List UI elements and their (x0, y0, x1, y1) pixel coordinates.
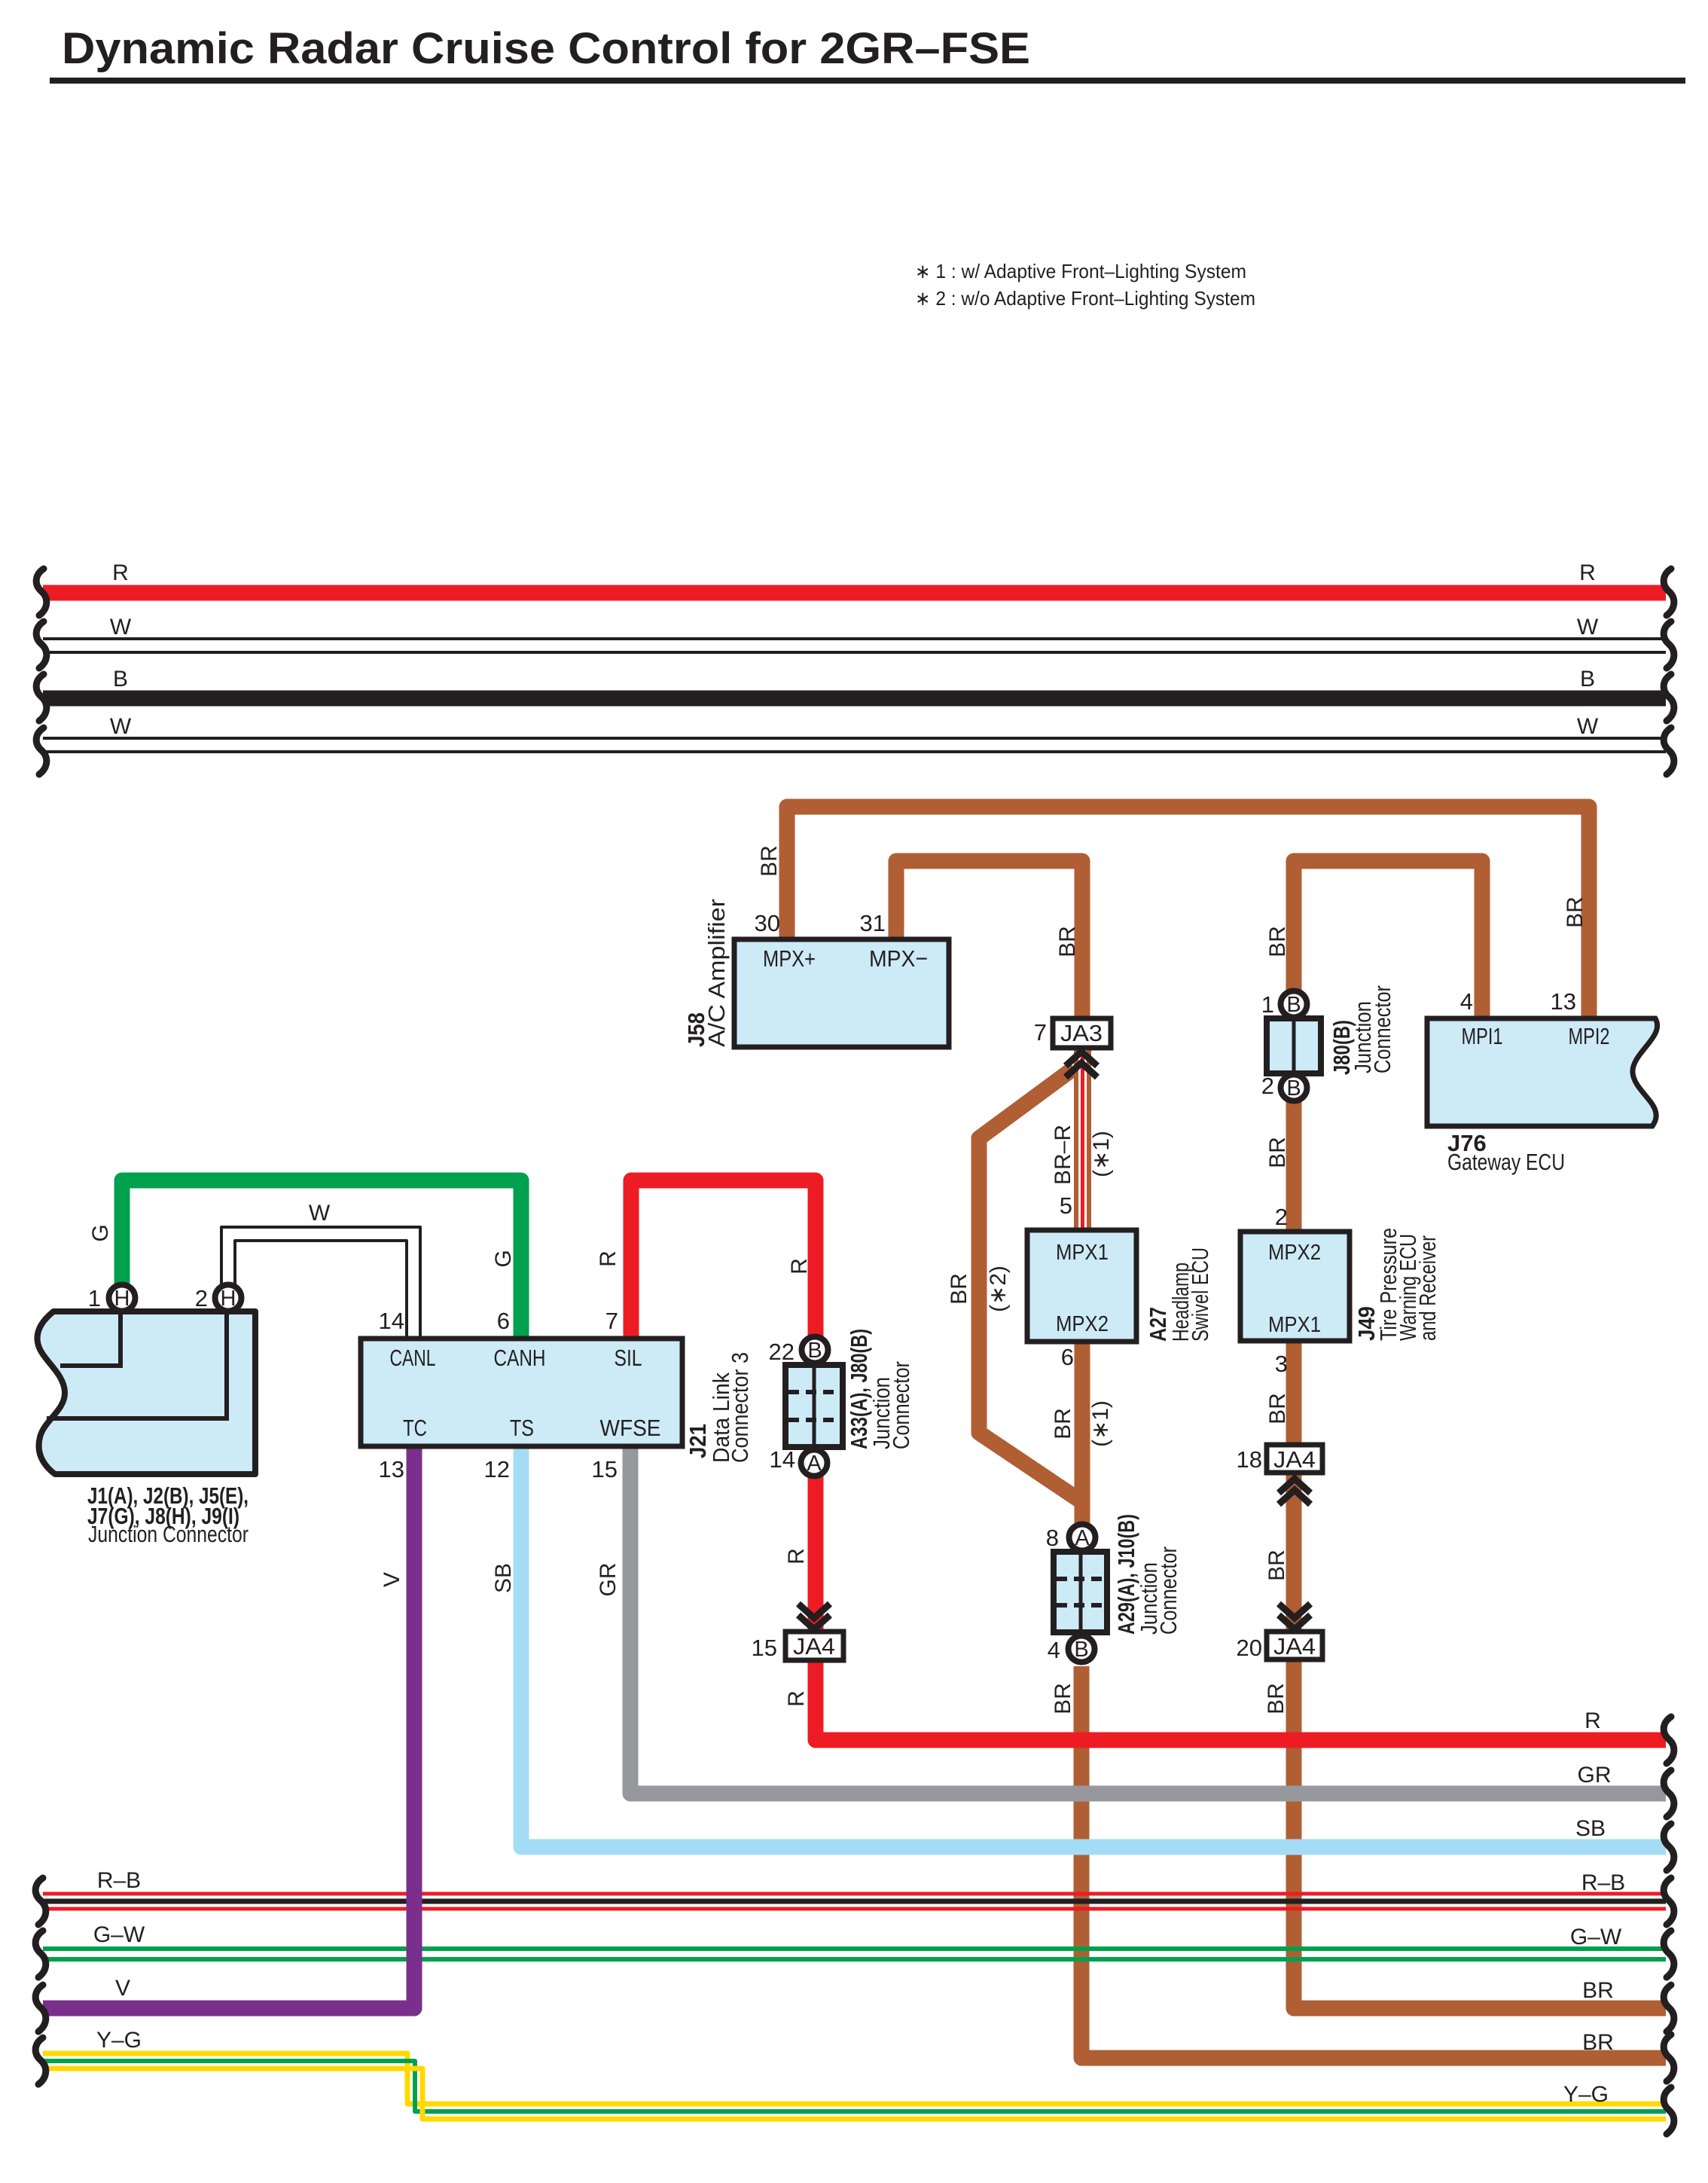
svg-text:B: B (1286, 993, 1301, 1017)
node H2 (215, 1285, 242, 1311)
wire BR J58 pin30 to J76 MPI2 pin13 (787, 807, 1589, 1018)
svg-text:B: B (1286, 1076, 1301, 1101)
svg-text:W: W (110, 615, 132, 640)
op J58 A/C Amplifier box (734, 939, 949, 1047)
svg-text:BR–R: BR–R (1051, 1125, 1075, 1185)
svg-text:MPX2: MPX2 (1268, 1241, 1321, 1265)
A27 Headlamp Swivel ECU box (1027, 1230, 1136, 1342)
svg-text:JA4: JA4 (793, 1633, 835, 1659)
svg-text:5: 5 (1060, 1192, 1072, 1219)
svg-text:BR: BR (1264, 1683, 1289, 1714)
svg-text:H: H (221, 1287, 236, 1311)
wire R-B bus (43, 1892, 1666, 1896)
wire BR J80(B) pin1 to J76 MPI1 pin4 (1294, 861, 1482, 1018)
node B22 (802, 1337, 828, 1363)
svg-text:BR: BR (1055, 926, 1080, 957)
svg-text:(∗1): (∗1) (1089, 1131, 1114, 1177)
svg-text:8: 8 (1046, 1525, 1059, 1551)
node B4 (1069, 1636, 1095, 1662)
svg-text:(∗2): (∗2) (986, 1266, 1011, 1312)
svg-text:3: 3 (1275, 1351, 1288, 1377)
wire R J21 SIL to A33 pin22, A33 pin14 to JA4(15) to right bus (631, 1180, 1666, 1740)
left top squiggles (36, 569, 47, 615)
svg-text:18: 18 (1237, 1446, 1262, 1473)
svg-text:G–W: G–W (1570, 1925, 1622, 1949)
wire BR A29 pin4 to right bus (1081, 1666, 1666, 2058)
wire BR (*2) bypass around A27 (979, 1068, 1082, 1502)
J1 junction connector box (37, 1311, 255, 1474)
J49 Tire Pressure Warning ECU box (1240, 1232, 1350, 1341)
svg-text:30: 30 (755, 910, 780, 936)
svg-text:WFSE: WFSE (600, 1415, 661, 1441)
svg-text:14: 14 (379, 1308, 404, 1334)
svg-text:∗ 1 : w/ Adaptive Front–Lighti: ∗ 1 : w/ Adaptive Front–Lighting System (915, 260, 1246, 282)
wire B top bus (43, 691, 1666, 707)
svg-text:7: 7 (605, 1308, 618, 1334)
svg-text:1: 1 (1261, 991, 1274, 1018)
title underline (50, 78, 1685, 84)
JA4(20) connector box (1267, 1632, 1322, 1659)
svg-text:R: R (784, 1548, 809, 1565)
svg-text:JA3: JA3 (1060, 1020, 1103, 1046)
svg-text:R: R (596, 1250, 621, 1267)
svg-text:BR: BR (757, 845, 782, 877)
right top squiggles (1664, 569, 1674, 615)
svg-text:15: 15 (592, 1456, 618, 1482)
svg-text:2: 2 (1261, 1073, 1274, 1099)
node B2 (1281, 1075, 1307, 1101)
svg-text:20: 20 (1237, 1635, 1262, 1661)
wire BR-R (*1) JA3 to A27 MPX1 pin5 (1074, 1048, 1091, 1230)
svg-text:∗ 2 : w/o Adaptive Front–Light: ∗ 2 : w/o Adaptive Front–Lighting System (915, 287, 1255, 310)
svg-text:7: 7 (1034, 1019, 1047, 1046)
node H1 (109, 1285, 136, 1311)
svg-text:15: 15 (752, 1635, 777, 1661)
wire BR J58 pin31 to JA3 (896, 861, 1082, 1018)
svg-text:BR: BR (1265, 1393, 1290, 1424)
svg-text:A/C Amplifier: A/C Amplifier (703, 899, 730, 1047)
JA4(18) connector box (1267, 1445, 1322, 1473)
svg-text:CANH: CANH (494, 1345, 546, 1371)
svg-text:2: 2 (195, 1285, 208, 1311)
JA3 arrow (1066, 1052, 1097, 1077)
svg-text:13: 13 (379, 1456, 404, 1482)
svg-text:Connector: Connector (1155, 1546, 1182, 1635)
svg-text:W: W (1577, 714, 1599, 739)
svg-text:W: W (110, 714, 132, 739)
svg-text:V: V (380, 1572, 404, 1587)
svg-text:14: 14 (770, 1446, 795, 1473)
JA3 connector box (1053, 1018, 1111, 1048)
svg-text:BR: BR (1051, 1408, 1075, 1440)
A33(A) J80(B) junction connector (785, 1365, 843, 1447)
svg-text:R: R (112, 560, 129, 585)
svg-text:Connector: Connector (888, 1361, 914, 1449)
svg-text:A: A (1075, 1526, 1090, 1550)
svg-text:1: 1 (88, 1285, 101, 1311)
svg-text:J21: J21 (685, 1424, 711, 1458)
wire Y-G bus (43, 2053, 1666, 2104)
svg-text:BR: BR (1265, 926, 1290, 957)
svg-text:R–B: R–B (97, 1868, 141, 1893)
svg-text:BR: BR (1265, 1137, 1290, 1168)
JA4(15) arrow (798, 1604, 830, 1629)
svg-text:CANL: CANL (390, 1345, 436, 1371)
svg-text:Connector: Connector (1369, 985, 1395, 1073)
svg-text:B: B (1074, 1638, 1088, 1662)
svg-text:H: H (114, 1287, 130, 1311)
svg-text:SIL: SIL (615, 1345, 642, 1371)
svg-text:MPX1: MPX1 (1268, 1313, 1321, 1337)
svg-text:Junction Connector: Junction Connector (88, 1521, 249, 1547)
svg-text:22: 22 (769, 1339, 795, 1365)
wire GR J21 WFSE to right bus (630, 1446, 1666, 1794)
node A14 (801, 1450, 828, 1476)
svg-text:B: B (113, 667, 128, 692)
J80(B) junction connector top (1267, 1018, 1321, 1073)
svg-text:V: V (115, 1976, 130, 2001)
svg-text:B: B (807, 1339, 822, 1363)
JA4(18) arrow (1279, 1479, 1310, 1504)
svg-text:6: 6 (497, 1308, 510, 1334)
wire BR A27 MPX2 pin6 to A29 pin8 (1075, 1342, 1090, 1523)
wire BR J80(B) pin2 to J49 MPX2 pin2 (1286, 1101, 1302, 1232)
JA4(20) arrow (1279, 1604, 1310, 1629)
svg-text:SB: SB (1575, 1816, 1606, 1841)
svg-text:BR: BR (1563, 896, 1588, 928)
wire SB J21 TS to right bus (521, 1446, 1666, 1847)
svg-text:BR: BR (1582, 2030, 1614, 2055)
svg-text:GR: GR (596, 1563, 621, 1597)
wire W J1 pin2 to J21 CANL (221, 1227, 420, 1339)
svg-text:MPX2: MPX2 (1056, 1312, 1109, 1336)
right bottom squiggles (1664, 1717, 1674, 1763)
svg-text:MPX−: MPX− (869, 945, 928, 972)
svg-text:Gateway ECU: Gateway ECU (1447, 1149, 1565, 1175)
JA4(15) connector box (785, 1632, 843, 1660)
wire BR JA4(18) through JA4(20) to right bus (1294, 1473, 1666, 2008)
svg-text:R: R (787, 1258, 812, 1275)
wire G-W bus (43, 1946, 1666, 1951)
node A8 (1069, 1525, 1096, 1551)
svg-text:4: 4 (1460, 988, 1473, 1015)
svg-text:B: B (1580, 667, 1595, 692)
node B1 (1281, 991, 1307, 1018)
svg-text:Swivel ECU: Swivel ECU (1187, 1247, 1213, 1342)
svg-text:MPI1: MPI1 (1462, 1023, 1503, 1049)
svg-text:W: W (1577, 615, 1599, 640)
svg-text:2: 2 (1275, 1204, 1288, 1230)
svg-text:MPI2: MPI2 (1569, 1023, 1610, 1049)
svg-text:13: 13 (1551, 988, 1576, 1015)
svg-text:R: R (784, 1690, 809, 1707)
svg-text:(∗1): (∗1) (1088, 1400, 1113, 1447)
svg-text:Y–G: Y–G (1563, 2082, 1609, 2107)
svg-text:BR: BR (1582, 1978, 1614, 2003)
svg-text:Connector 3: Connector 3 (727, 1352, 753, 1463)
svg-text:TC: TC (403, 1415, 427, 1441)
wire W top bus 2 (43, 737, 1666, 740)
wire G J1 pin1 to J21 CANH (122, 1180, 521, 1339)
left bottom squiggles (35, 1878, 46, 1925)
svg-text:4: 4 (1048, 1637, 1060, 1663)
svg-text:31: 31 (860, 910, 886, 936)
svg-text:A: A (807, 1452, 822, 1476)
svg-text:JA4: JA4 (1273, 1633, 1316, 1659)
svg-text:12: 12 (484, 1456, 510, 1482)
svg-text:SB: SB (491, 1563, 516, 1593)
svg-text:BR: BR (1264, 1549, 1289, 1581)
wire BR J49 MPX1 pin3 to JA4(18) (1286, 1341, 1302, 1445)
svg-text:MPX1: MPX1 (1056, 1241, 1109, 1265)
wire V J21 TC to left bus (43, 1446, 414, 2008)
A29(A) J10(B) junction connector (1054, 1552, 1107, 1632)
svg-text:R: R (1584, 1708, 1601, 1733)
svg-text:G: G (88, 1224, 113, 1241)
svg-text:Y–G: Y–G (96, 2028, 142, 2053)
svg-text:W: W (309, 1201, 331, 1226)
svg-text:G: G (491, 1250, 516, 1267)
svg-text:BR: BR (947, 1273, 971, 1305)
svg-text:G–W: G–W (93, 1922, 145, 1947)
svg-text:6: 6 (1061, 1344, 1074, 1370)
svg-text:R: R (1579, 560, 1596, 585)
svg-text:GR: GR (1578, 1763, 1612, 1788)
svg-text:and Receiver: and Receiver (1414, 1235, 1441, 1341)
svg-text:BR: BR (1051, 1683, 1075, 1714)
svg-text:JA4: JA4 (1273, 1446, 1316, 1473)
J76 Gateway ECU box (1427, 1018, 1658, 1126)
svg-text:Dynamic Radar Cruise Control f: Dynamic Radar Cruise Control for 2GR–FSE (62, 24, 1030, 73)
svg-text:MPX+: MPX+ (763, 945, 816, 972)
svg-text:TS: TS (510, 1415, 534, 1441)
wire R top bus (43, 585, 1666, 601)
wire W top bus 1 (43, 637, 1666, 640)
svg-text:R–B: R–B (1581, 1870, 1625, 1895)
J21 Data Link Connector 3 box (361, 1339, 682, 1446)
